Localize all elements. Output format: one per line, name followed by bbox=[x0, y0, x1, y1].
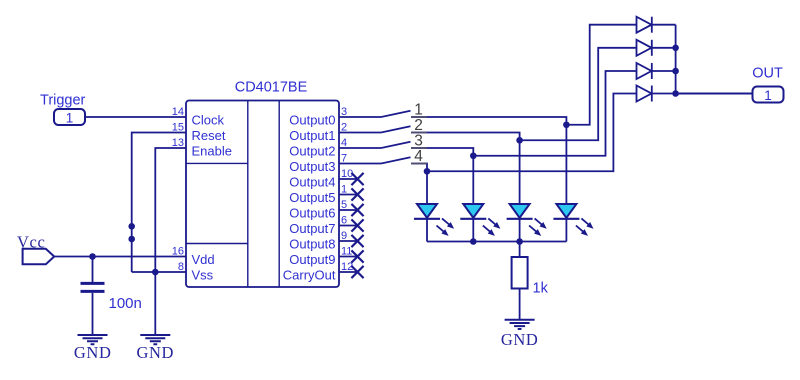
no-connect X mark pin 1 bbox=[351, 188, 363, 200]
net label 2 underline bbox=[411, 132, 427, 134]
svg-text:Output3: Output3 bbox=[289, 159, 335, 174]
diode D3 cathode bar bbox=[651, 63, 653, 79]
pin stub pin 12 (unconnected) bbox=[339, 271, 358, 273]
svg-text:Output6: Output6 bbox=[289, 205, 335, 220]
wire capacitor bottom lead bbox=[92, 293, 94, 335]
diode D1 triangle bbox=[637, 17, 652, 33]
diode D4 triangle bbox=[637, 86, 652, 102]
net label leader diagonal wire 1 bbox=[381, 111, 411, 117]
port Trigger box bbox=[54, 109, 85, 125]
svg-text:1: 1 bbox=[764, 88, 772, 103]
junction dot diode bus D4 / OUT bbox=[672, 90, 679, 97]
LED D5 light arrows bbox=[437, 218, 454, 235]
svg-text:Output8: Output8 bbox=[289, 236, 335, 251]
junction dot net 1 branch bbox=[563, 121, 570, 128]
pin stub pin 10 (unconnected) bbox=[339, 178, 358, 180]
wire net 3 main run to diode D3 bbox=[411, 71, 637, 156]
svg-text:GND: GND bbox=[501, 330, 539, 349]
svg-text:Output0: Output0 bbox=[289, 112, 335, 127]
svg-text:1k: 1k bbox=[533, 281, 549, 297]
IC left column divider above Vdd bbox=[186, 243, 248, 245]
wire net 3 branch down to LED bbox=[472, 156, 474, 204]
wire LED D8 cathode down bbox=[565, 219, 567, 242]
net label leader diagonal wire 4 bbox=[381, 157, 411, 163]
wire diode D1 cathode bbox=[652, 24, 676, 26]
no-connect X mark pin 9 bbox=[351, 235, 363, 247]
LED D7 triangle bbox=[510, 204, 530, 218]
svg-text:3: 3 bbox=[414, 133, 423, 150]
resistor R1 body bbox=[512, 257, 528, 289]
LED D6 light arrows bbox=[483, 218, 500, 235]
svg-text:Output4: Output4 bbox=[289, 174, 335, 189]
no-connect X mark pin 6 bbox=[351, 219, 363, 231]
svg-text:OUT: OUT bbox=[752, 66, 783, 82]
junction dot bus LED D7 / resistor bbox=[516, 238, 523, 245]
pin stub pin 9 (unconnected) bbox=[339, 240, 358, 242]
svg-text:Vss: Vss bbox=[192, 267, 214, 282]
svg-text:1: 1 bbox=[66, 110, 74, 125]
wire net 4 main run to diode D4 bbox=[411, 94, 637, 172]
LED D6 triangle bbox=[463, 204, 483, 218]
wire LED D7 cathode down bbox=[519, 219, 521, 242]
IC left column divider under Enable bbox=[186, 162, 248, 164]
wire resistor R1 to GND3 bbox=[519, 289, 521, 320]
wire LED cathode bus bbox=[427, 241, 566, 243]
no-connect X mark pin 5 bbox=[351, 204, 363, 216]
junction dot Vcc/capacitor bbox=[89, 253, 96, 260]
diode D1 cathode bar bbox=[651, 17, 653, 33]
svg-text:Trigger: Trigger bbox=[40, 93, 86, 109]
junction dot diode bus D2 bbox=[672, 45, 679, 52]
junction dot net 3 branch bbox=[470, 152, 477, 159]
junction dot net 4 branch bbox=[424, 168, 431, 175]
junction dot diode bus D3 bbox=[672, 68, 679, 75]
LED D8 light arrows bbox=[576, 218, 593, 235]
diode D2 triangle bbox=[637, 40, 652, 56]
svg-text:Enable: Enable bbox=[192, 143, 232, 158]
pin stub pin 6 (unconnected) bbox=[339, 225, 358, 227]
svg-text:Vcc: Vcc bbox=[17, 233, 45, 252]
pin stub pin 11 (unconnected) bbox=[339, 256, 358, 258]
wire net 2 main run to diode D2 bbox=[411, 48, 637, 140]
wire to OUT port bbox=[676, 93, 753, 95]
net label 1 underline bbox=[411, 116, 427, 118]
svg-text:1: 1 bbox=[414, 102, 423, 119]
pin stub pin 2 (Output1) bbox=[339, 132, 381, 134]
LED D8 triangle bbox=[556, 204, 576, 218]
diode D4 cathode bar bbox=[651, 86, 653, 102]
svg-text:100n: 100n bbox=[109, 295, 142, 312]
svg-text:CarryOut: CarryOut bbox=[283, 267, 336, 282]
svg-text:Output1: Output1 bbox=[289, 128, 335, 143]
no-connect X mark pin 12 bbox=[351, 266, 363, 278]
capacitor 100n plate bottom bbox=[81, 290, 105, 293]
ground GND3 symbol bbox=[505, 320, 535, 329]
LED D7 cathode bar bbox=[507, 218, 533, 220]
wire net 1 main run to diode D1 bbox=[411, 25, 637, 125]
svg-text:Output2: Output2 bbox=[289, 143, 335, 158]
wire diode D2 cathode bbox=[652, 47, 676, 49]
svg-text:2: 2 bbox=[414, 117, 423, 134]
wire diode D4 cathode bbox=[652, 93, 676, 95]
IC internal divider line right bbox=[278, 101, 280, 288]
wire capacitor top lead bbox=[92, 257, 94, 283]
junction dot on reset line (row8) bbox=[128, 236, 135, 243]
pin stub pin 3 (Output0) bbox=[339, 116, 381, 118]
port OUT box bbox=[753, 87, 784, 103]
svg-text:GND: GND bbox=[74, 343, 112, 362]
junction dot net 2 branch bbox=[516, 137, 523, 144]
wire Vcc to Vdd pin 16 bbox=[54, 256, 186, 258]
svg-text:CD4017BE: CD4017BE bbox=[235, 80, 308, 96]
wire down to GND2 bbox=[154, 272, 156, 335]
svg-text:Reset: Reset bbox=[192, 128, 226, 143]
pin stub pin 1 (unconnected) bbox=[339, 194, 358, 196]
junction dot bus LED D6 bbox=[470, 238, 477, 245]
wire net 2 branch down to LED bbox=[519, 140, 521, 204]
IC internal divider line left bbox=[247, 101, 249, 288]
LED D5 cathode bar bbox=[414, 218, 440, 220]
wire LED D6 cathode down bbox=[472, 219, 474, 242]
pin stub pin 7 (Output3) bbox=[339, 163, 381, 165]
net label 4 underline bbox=[411, 163, 427, 165]
svg-text:Output7: Output7 bbox=[289, 221, 335, 236]
wire diode join bus vertical bbox=[675, 25, 677, 94]
net label leader diagonal wire 3 bbox=[381, 142, 411, 148]
svg-text:Output9: Output9 bbox=[289, 252, 335, 267]
wire Enable pin 13 down bbox=[155, 148, 186, 272]
net label leader diagonal wire 2 bbox=[381, 126, 411, 132]
wire net 1 branch down to LED bbox=[565, 125, 567, 204]
junction dot on reset line (row7) bbox=[128, 223, 135, 230]
svg-text:Vdd: Vdd bbox=[192, 252, 215, 267]
LED D5 triangle bbox=[417, 204, 437, 218]
LED D8 cathode bar bbox=[553, 218, 579, 220]
ground GND2 symbol bbox=[140, 335, 170, 344]
wire Reset pin 15 down bbox=[132, 133, 186, 273]
IC U1 CD4017BE body bbox=[186, 101, 339, 288]
no-connect X mark pin 10 bbox=[351, 173, 363, 185]
wire Trigger to Clock pin 14 bbox=[85, 116, 186, 118]
svg-text:4: 4 bbox=[414, 148, 423, 165]
ground GND1 symbol bbox=[78, 335, 108, 344]
net label 3 underline bbox=[411, 147, 427, 149]
pin stub pin 5 (unconnected) bbox=[339, 209, 358, 211]
LED D6 cathode bar bbox=[460, 218, 486, 220]
power symbol Vcc bbox=[23, 249, 55, 264]
wire diode D3 cathode bbox=[652, 70, 676, 72]
no-connect X mark pin 11 bbox=[351, 250, 363, 262]
wire LED D5 cathode down bbox=[426, 219, 428, 242]
LED D7 light arrows bbox=[529, 218, 546, 235]
wire Vss pin 8 bbox=[132, 271, 186, 273]
capacitor 100n plate top bbox=[81, 282, 105, 285]
wire bus to resistor R1 bbox=[519, 242, 521, 258]
junction dot Vss/Enable/GND bbox=[152, 269, 159, 276]
svg-text:GND: GND bbox=[137, 343, 175, 362]
diode D3 triangle bbox=[637, 63, 652, 79]
pin stub pin 4 (Output2) bbox=[339, 147, 381, 149]
svg-text:Clock: Clock bbox=[192, 112, 225, 127]
wire net 4 branch down to LED bbox=[426, 171, 428, 204]
diode D2 cathode bar bbox=[651, 40, 653, 56]
svg-text:Output5: Output5 bbox=[289, 190, 335, 205]
